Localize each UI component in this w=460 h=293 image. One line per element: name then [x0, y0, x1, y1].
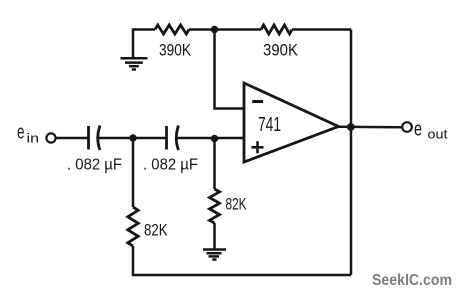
label e in [17, 122, 39, 146]
wire: feedback node down to inverting input [215, 30, 245, 109]
svg-text:in: in [27, 131, 40, 146]
wire: left branch down to 82K [132, 138, 135, 207]
svg-text:82K: 82K [226, 195, 247, 214]
wire: e_in to C1 [56, 137, 88, 140]
label e out [414, 119, 448, 142]
svg-text:e: e [414, 119, 422, 141]
label .082 uF (first) [67, 157, 122, 174]
op-amp U1 741 [244, 83, 339, 162]
resistor 82K (left) [128, 207, 138, 246]
label .082 uF (second) [143, 157, 198, 174]
label 82K (left) [144, 221, 168, 240]
svg-text:. 082 µF: . 082 µF [67, 157, 122, 174]
node: junction signal/82K right [211, 135, 218, 142]
wire: 82K right down to ground [213, 223, 216, 249]
terminal e_out (open circle) [402, 122, 412, 132]
node: output junction [347, 123, 355, 131]
svg-text:. 082 µF: . 082 µF [143, 157, 198, 174]
node: junction of 390K resistors / inverting input net [211, 26, 218, 33]
pin label: non-inverting input (+) [252, 141, 264, 153]
label 390K (right) [263, 41, 299, 60]
wire: 82K left to bottom rail [133, 246, 351, 275]
wire: middle branch down to 82K [213, 139, 216, 190]
resistor 390K (right feedback) [261, 25, 292, 34]
resistor 390K (left feedback) [155, 25, 189, 34]
svg-text:741: 741 [258, 114, 281, 136]
node: junction C1/C2/82K left [129, 134, 136, 141]
wire: top rail from ground corner to right corner [133, 30, 351, 58]
label 741 [258, 114, 281, 136]
ground (top left) [121, 58, 148, 69]
wire: C1 to C2 [98, 137, 167, 140]
wire: output to e_out terminal [338, 126, 402, 129]
svg-text:e: e [17, 122, 25, 144]
label 390K (left) [159, 41, 192, 60]
svg-text:82K: 82K [144, 221, 168, 240]
wire: C2 to non-inverting input [177, 137, 245, 140]
svg-text:390K: 390K [263, 41, 299, 60]
capacitor C1 .082uF [89, 126, 101, 151]
svg-text:out: out [428, 127, 448, 142]
capacitor C2 .082uF [167, 126, 179, 151]
svg-text:SeekIC.com: SeekIC.com [372, 272, 452, 289]
svg-text:390K: 390K [159, 41, 192, 60]
resistor 82K (right) [210, 189, 220, 223]
pin label: inverting input (-) [252, 100, 263, 103]
label 82K (right) [226, 195, 247, 214]
terminal e_in (open circle) [46, 133, 55, 142]
watermark SeekIC.com [372, 272, 452, 289]
ground (below right 82K) [203, 250, 226, 260]
wire: right vertical from top rail to bottom rail [350, 30, 353, 276]
